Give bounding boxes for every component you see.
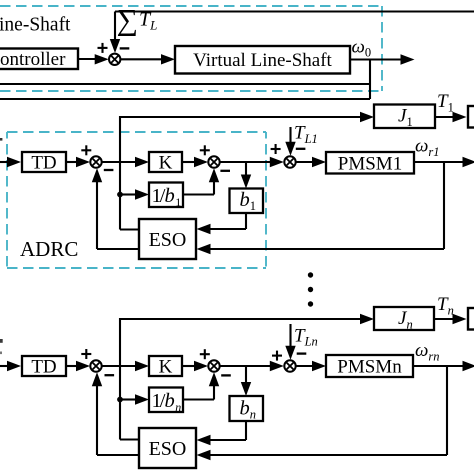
svg-text:PMSM1: PMSM1 bbox=[338, 154, 402, 175]
minus sign at Snb bbox=[221, 374, 231, 376]
label remnant at left edge (section1 reference) bbox=[0, 138, 2, 141]
plus sign at Sna bbox=[81, 349, 91, 359]
arrowhead PMSMn output (clipped at edge) bbox=[463, 361, 474, 371]
arrowhead into summing junction S0 bbox=[95, 54, 109, 64]
arrowhead TLn into Snc bbox=[285, 346, 295, 360]
svg-text:ESO: ESO bbox=[149, 438, 187, 460]
summing junction Snb bbox=[208, 360, 219, 371]
block ESO section n bbox=[139, 428, 196, 468]
wire omega r1 feedback vertical bbox=[443, 162, 445, 249]
wire ESOn z2 stub bbox=[120, 438, 139, 440]
svg-text:ine-Shaft: ine-Shaft bbox=[0, 15, 71, 36]
ADRC dashed box left edge bbox=[6, 132, 8, 268]
block Jn bbox=[374, 307, 434, 330]
plus sign at Snb bbox=[200, 349, 210, 359]
arrowhead omega0 output bbox=[401, 54, 415, 64]
svg-text:∑: ∑ bbox=[117, 4, 138, 37]
wire K1 to S1b bbox=[182, 161, 195, 163]
arrowhead into virtual line-shaft box bbox=[161, 54, 175, 64]
arrowhead into S1a bbox=[76, 157, 90, 167]
wire omega0 return lower (to left edge) bbox=[0, 98, 370, 100]
minus sign at S1c bbox=[296, 148, 306, 150]
wire TLn drop bbox=[289, 324, 291, 347]
wire 1/b1 up to S1b bbox=[213, 181, 215, 195]
wire z2 to Jn horizontal bbox=[120, 318, 362, 320]
block TD section1 bbox=[22, 152, 66, 172]
block J1 bbox=[374, 105, 435, 129]
arrowhead PMSM1 output (clipped at edge) bbox=[463, 157, 474, 167]
svg-text:ESO: ESO bbox=[149, 229, 187, 251]
wire z1 vertical section n bbox=[96, 385, 98, 455]
svg-text:ontroller: ontroller bbox=[0, 49, 66, 70]
arrowhead into PMSM1 bbox=[312, 157, 326, 167]
junction dot z2 branch section n bbox=[117, 397, 123, 403]
summing junction S0 bbox=[109, 54, 120, 65]
svg-text:ADRC: ADRC bbox=[20, 237, 78, 261]
wire input to TDn bbox=[0, 365, 9, 367]
minus sign at Snc bbox=[297, 352, 307, 354]
block PMSMn bbox=[326, 355, 413, 377]
arrowhead into Snc bbox=[270, 361, 284, 371]
block K section n bbox=[149, 356, 182, 376]
wire input to TD1 bbox=[0, 161, 9, 163]
arrowhead into J1 bbox=[360, 112, 374, 122]
summing junction Snc bbox=[284, 360, 295, 371]
wire dot to 1/b1 bbox=[120, 193, 136, 195]
wire b1 to ESO1 bbox=[209, 228, 246, 230]
wire 1/bn up to Snb bbox=[213, 385, 215, 400]
wire sum TL feed horizontal bbox=[115, 10, 474, 12]
wire controller to summing junction S0 bbox=[78, 58, 96, 60]
arrowhead z1 into Sna bbox=[92, 372, 102, 386]
wire bn to ESOn bbox=[209, 439, 246, 441]
dashed boundary of virtual line-shaft block (top) bbox=[0, 5, 382, 7]
arrowhead J1 output bbox=[453, 112, 467, 122]
block 1/b1 bbox=[149, 183, 183, 208]
wire 1/b1 output bbox=[183, 193, 214, 195]
arrowhead b1 into ESO1 bbox=[197, 224, 211, 234]
svg-text:TD: TD bbox=[31, 153, 56, 174]
wire ESOn z1 stub bbox=[97, 454, 139, 456]
arrowhead 1/bn into Snb bbox=[209, 372, 219, 386]
ADRC dashed box top edge bbox=[7, 131, 266, 133]
arrowhead into Jn bbox=[360, 314, 374, 324]
minus sign at S0 bbox=[120, 47, 130, 49]
ADRC dashed box right edge bbox=[265, 132, 267, 268]
wire S1a to K1 bbox=[102, 161, 136, 163]
arrowhead into 1/bn bbox=[135, 394, 149, 404]
ellipsis dots between sections bbox=[308, 272, 313, 306]
wire omega rn feedback vertical bbox=[446, 366, 448, 455]
arrowhead into 1/b1 bbox=[135, 189, 149, 199]
arrowhead into TDn bbox=[7, 361, 21, 371]
summing junction S1a bbox=[90, 156, 101, 167]
arrowhead omega r1 into ESO1 bbox=[197, 244, 211, 254]
wire Sna to Kn bbox=[102, 365, 136, 367]
arrowhead into K1 bbox=[135, 157, 149, 167]
block b1 bbox=[230, 189, 264, 214]
wire omega0 branch vertical bbox=[369, 60, 371, 100]
summing junction Sna bbox=[90, 360, 101, 371]
arrowhead into bn bbox=[241, 382, 251, 396]
svg-text:Virtual Line-Shaft: Virtual Line-Shaft bbox=[193, 50, 332, 71]
arrowhead into PMSMn bbox=[312, 361, 326, 371]
plus sign at S1b bbox=[200, 145, 210, 155]
wire sum TL feed vertical drop bbox=[114, 12, 116, 42]
wire PMSMn output bbox=[413, 365, 464, 367]
wire Snb output down to bn bbox=[245, 366, 247, 383]
block PMSM1 bbox=[326, 152, 414, 174]
wire S1b output down to b1 bbox=[245, 162, 247, 176]
plus sign at Snc bbox=[272, 351, 282, 361]
wire TD1 to S1a bbox=[66, 161, 77, 163]
arrowhead into TD1 bbox=[7, 157, 21, 167]
wire z1 vertical section1 bbox=[96, 181, 98, 249]
label remnant at left edge (section n reference b) bbox=[0, 352, 2, 355]
wire ESO1 z2 stub bbox=[120, 228, 139, 230]
arrowhead into Kn bbox=[135, 361, 149, 371]
dashed boundary right edge (top block) bbox=[381, 6, 383, 91]
block ESO section1 bbox=[139, 219, 196, 259]
wire PMSM1 output bbox=[414, 161, 464, 163]
torque sum block (cropped at right, section n) bbox=[468, 308, 474, 330]
block TD section n bbox=[22, 356, 66, 376]
arrowhead down into summing junction S0 bbox=[110, 39, 120, 53]
arrowhead into S1b bbox=[194, 157, 208, 167]
wire dot to 1/bn bbox=[120, 398, 136, 400]
wire omega rn feedback horizontal bbox=[209, 454, 447, 456]
wire Jn output bbox=[434, 318, 454, 320]
arrowhead bn into ESOn bbox=[197, 435, 211, 445]
arrowhead into b1 bbox=[241, 175, 251, 189]
arrowhead into Sna bbox=[76, 361, 90, 371]
arrowhead z1 into S1a bbox=[92, 168, 102, 182]
virtual line-shaft block bbox=[175, 46, 350, 74]
ADRC dashed box bottom edge bbox=[7, 267, 266, 269]
plus sign at S1a bbox=[81, 145, 91, 155]
wire z2 vertical section1 bbox=[119, 116, 121, 230]
wire TL1 drop bbox=[289, 127, 291, 143]
block bn bbox=[230, 396, 264, 421]
summing junction S1c bbox=[284, 156, 295, 167]
arrowhead TL1 into S1c bbox=[285, 142, 295, 156]
wire ESO1 z1 stub bbox=[97, 248, 139, 250]
minus sign at S1a bbox=[104, 169, 114, 171]
wire 1/bn output bbox=[183, 398, 214, 400]
svg-text:PMSMn: PMSMn bbox=[337, 357, 402, 378]
arrowhead Jn output bbox=[453, 314, 467, 324]
block 1/bn bbox=[149, 388, 183, 413]
wire z2 vertical section n bbox=[119, 318, 121, 440]
wire omega0 return upper (to left edge) bbox=[0, 83, 370, 85]
wire omega0 output bbox=[350, 58, 402, 60]
svg-text:K: K bbox=[159, 357, 173, 378]
wire TDn to Sna bbox=[66, 365, 77, 367]
block K section1 bbox=[149, 152, 182, 172]
torque sum block (cropped at right, section1) bbox=[468, 106, 474, 128]
wire Kn to Snb bbox=[182, 365, 195, 367]
wire z2 to J1 horizontal bbox=[120, 116, 362, 118]
wire J1 output bbox=[435, 116, 454, 118]
wire b1 down bbox=[245, 213, 247, 229]
wire S1b to S1c bbox=[220, 161, 271, 163]
svg-text:K: K bbox=[159, 153, 173, 174]
wire Snc to PMSMn bbox=[296, 365, 313, 367]
controller block (cropped at left) bbox=[0, 49, 78, 70]
minus sign at S1b bbox=[220, 170, 230, 172]
wire bn down bbox=[245, 421, 247, 440]
dashed boundary bottom edge (top block) bbox=[0, 90, 382, 92]
arrowhead into Snb bbox=[194, 361, 208, 371]
arrowhead 1/b1 into S1b bbox=[209, 168, 219, 182]
junction dot z2 branch section1 bbox=[117, 192, 123, 198]
arrowhead omega rn into ESOn bbox=[197, 450, 211, 460]
arrowhead into S1c bbox=[270, 157, 284, 167]
plus sign at S0 bbox=[98, 43, 108, 53]
svg-text:TD: TD bbox=[31, 357, 56, 378]
plus sign at S1c bbox=[271, 144, 281, 154]
wire omega r1 feedback horizontal bbox=[209, 248, 444, 250]
label remnant at left edge (section n reference a) bbox=[0, 339, 3, 343]
wire S1c to PMSM1 bbox=[296, 161, 313, 163]
summing junction S1b bbox=[208, 156, 219, 167]
wire S0 to virtual line-shaft box bbox=[121, 58, 163, 60]
wire Snb to Snc bbox=[220, 365, 271, 367]
minus sign at Sna bbox=[105, 374, 115, 376]
